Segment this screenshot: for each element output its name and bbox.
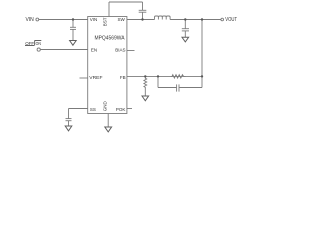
svg-text:BIAS: BIAS [115,47,125,52]
svg-text:OFF: OFF [25,41,34,46]
svg-text:VIN: VIN [25,17,34,23]
svg-text:MPQ4569WA: MPQ4569WA [95,35,126,41]
svg-text:VOUT: VOUT [225,17,237,23]
svg-text:POK: POK [116,107,126,112]
svg-text:GND: GND [103,100,108,111]
svg-text:EN: EN [91,47,97,52]
svg-text:FB: FB [120,75,126,80]
svg-text:BST: BST [103,17,108,26]
svg-text:SW: SW [118,17,126,22]
svg-text:ON: ON [36,41,41,46]
svg-text:VREF: VREF [89,75,102,80]
svg-text:SS: SS [90,107,96,112]
svg-text:VIN: VIN [90,17,98,22]
